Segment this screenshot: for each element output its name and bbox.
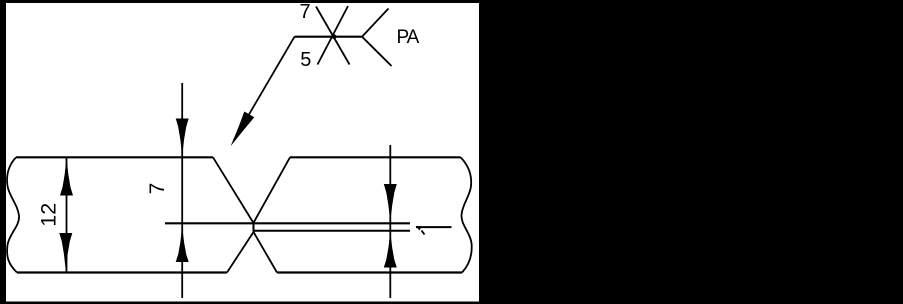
left plate lower bevel [227,232,254,273]
dimension 7 down arrow [176,119,189,157]
root face vertical [253,223,255,232]
dimension 1 leader tick [422,231,425,235]
dot at X crossing [332,34,337,39]
right plate break (wavy) line [461,157,472,272]
svg-text:7: 7 [299,1,310,23]
right plate upper bevel [254,157,291,223]
weld symbol X (double-V butt weld), stroke 1 [316,7,350,65]
svg-text:5: 5 [300,49,311,71]
dimension 12 top arrow [60,158,73,196]
upper root face line [165,222,410,224]
tail fork upper branch [362,9,389,37]
left plate break (wavy) line [7,157,19,272]
weld symbol X, stroke 2 [318,6,349,65]
left plate bottom edge [17,271,227,273]
dimension 1 down arrow [384,184,397,223]
svg-text:12: 12 [36,203,60,227]
dimension 12 bottom arrow [59,233,72,271]
tail fork lower branch [362,37,392,66]
dimension 1 up arrow [384,232,397,268]
left plate top edge [16,156,213,158]
weld symbol reference line [295,36,363,38]
right plate bottom edge [277,271,462,273]
dimension 1 line [389,145,391,298]
dimension 1 leader arrowhead [416,226,422,231]
lower root face line [254,230,410,232]
right plate lower bevel [254,232,278,273]
dimension 12 line [66,157,68,272]
dimension 7 up arrow [176,227,189,263]
left plate upper bevel [213,157,254,223]
dimension 7 line [181,83,183,298]
leader line [234,37,295,140]
svg-text:PA: PA [397,27,420,48]
right plate top edge [290,156,461,158]
white drawing area [6,3,479,302]
svg-text:7: 7 [146,183,169,195]
dimension 1 leader shelf line [416,226,452,228]
leader arrowhead [231,112,255,147]
